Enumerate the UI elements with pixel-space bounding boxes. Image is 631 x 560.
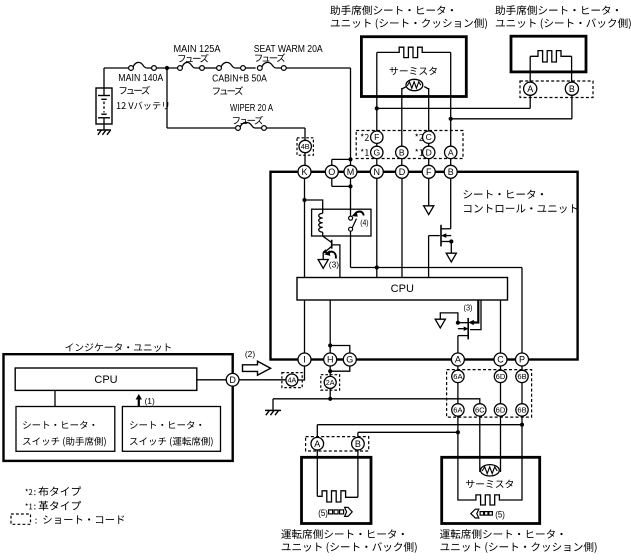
svg-text:MAIN 125A: MAIN 125A: [174, 44, 221, 55]
svg-text:A: A: [314, 439, 320, 449]
svg-text:6D: 6D: [496, 406, 506, 415]
svg-text:C: C: [497, 355, 504, 365]
svg-text:D: D: [399, 167, 406, 177]
svg-text:F: F: [426, 167, 432, 177]
svg-text:CABIN+B 50A: CABIN+B 50A: [212, 74, 267, 85]
svg-text:I: I: [303, 355, 306, 365]
svg-text:6D: 6D: [496, 372, 506, 381]
svg-text:4A: 4A: [288, 376, 297, 385]
svg-text:N: N: [374, 167, 381, 177]
svg-text:(3): (3): [329, 260, 339, 270]
svg-text:D: D: [229, 375, 236, 385]
svg-text:(1): (1): [145, 396, 155, 406]
svg-text:O: O: [328, 167, 335, 177]
svg-text:K: K: [301, 167, 307, 177]
svg-text:6C: 6C: [475, 406, 485, 415]
svg-text:(4): (4): [360, 218, 369, 228]
svg-text:B: B: [399, 147, 405, 157]
svg-text:C: C: [426, 132, 432, 142]
svg-text:6A: 6A: [453, 372, 463, 381]
svg-text:D: D: [426, 147, 432, 157]
svg-text:MAIN 140A: MAIN 140A: [118, 73, 163, 84]
svg-text:6A: 6A: [453, 406, 463, 415]
svg-text:(5): (5): [495, 508, 505, 519]
svg-text:CPU: CPU: [391, 283, 414, 295]
svg-text:G: G: [373, 147, 380, 157]
svg-text:(2): (2): [245, 349, 255, 359]
svg-text:B: B: [448, 167, 454, 177]
svg-text:B: B: [569, 84, 575, 94]
svg-text:WIPER 20 A: WIPER 20 A: [230, 103, 273, 114]
svg-text:M: M: [347, 167, 355, 177]
svg-text:G: G: [346, 355, 353, 365]
svg-text:P: P: [519, 355, 525, 365]
svg-text:6B: 6B: [517, 406, 526, 415]
svg-text:2A: 2A: [326, 378, 335, 387]
svg-text:B: B: [355, 439, 361, 449]
svg-text:F: F: [374, 132, 379, 142]
svg-text:A: A: [448, 147, 454, 157]
svg-text:A: A: [527, 84, 533, 94]
svg-text:(3): (3): [464, 303, 473, 313]
svg-text:6B: 6B: [517, 372, 526, 381]
svg-text:A: A: [455, 355, 461, 365]
svg-text:H: H: [327, 355, 334, 365]
svg-text:4B: 4B: [301, 142, 310, 151]
svg-text:CPU: CPU: [94, 374, 117, 386]
svg-text:SEAT WARM 20A: SEAT WARM 20A: [254, 44, 323, 55]
svg-text:(5): (5): [318, 507, 328, 518]
